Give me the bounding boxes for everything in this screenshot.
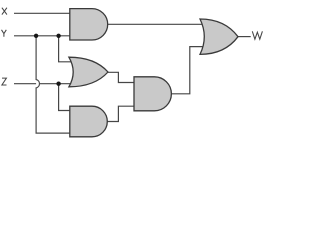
junction dot Y branch 2 xyxy=(56,34,60,38)
junction dot Z branch xyxy=(56,82,60,86)
OR gate middle (inputs Y,Z) xyxy=(69,57,108,87)
wire Y input xyxy=(14,35,70,37)
AND gate bottom (inputs Z,Y) xyxy=(70,106,108,137)
OR gate output (final, output W) xyxy=(200,19,238,54)
label X xyxy=(2,8,7,15)
wire X input xyxy=(14,12,70,14)
wire AND3 output to AND2 bottom input xyxy=(108,106,135,121)
wire Z input xyxy=(14,83,76,85)
junction dot Y branch 1 xyxy=(34,34,38,38)
AND gate top (inputs X,Y) xyxy=(70,9,108,40)
label Z xyxy=(2,78,7,85)
wire Y branch down to AND3 bottom input with hop over Z xyxy=(36,36,70,133)
wire hop mask (white) where Y branch crosses Z line xyxy=(36,80,39,88)
wire Y branch to OR1 top input xyxy=(59,36,76,62)
wire Z branch to AND3 top input xyxy=(59,84,70,111)
wire AND2 output to OR2 bottom input xyxy=(172,47,206,94)
wire OR1 output to AND2 top input xyxy=(108,72,135,82)
wire AND1 output to OR2 top input xyxy=(108,23,206,25)
label Y xyxy=(2,30,7,37)
label W (output) xyxy=(252,31,262,39)
wire OR2 output to W xyxy=(238,36,251,38)
AND gate middle-right xyxy=(134,77,171,111)
